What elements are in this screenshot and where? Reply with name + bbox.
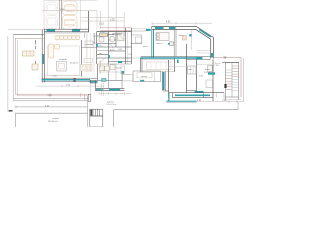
hall stacked boxes	[85, 41, 93, 48]
door frame block	[73, 78, 75, 82]
svg-text:3.25: 3.25	[110, 18, 115, 21]
svg-text:3.20 m2: 3.20 m2	[204, 72, 212, 74]
vertical dim line	[107, 0, 109, 36]
coffee table	[57, 62, 67, 72]
stair outline pink top	[213, 57, 241, 59]
counter strip left	[122, 75, 133, 81]
svg-text:lavad.: lavad.	[117, 68, 123, 70]
bath fixtures	[208, 66, 213, 72]
glazing bottom dark line	[42, 80, 90, 82]
kitchen island	[133, 71, 161, 82]
master top dimension line	[152, 22, 212, 25]
stair section marker	[224, 84, 226, 88]
window glazing teal west	[47, 29, 56, 31]
west window teal vertical	[163, 72, 165, 90]
marker dash left	[9, 110, 13, 112]
horizontal join x163-168	[163, 90, 169, 92]
vertical at west end of band	[172, 93, 174, 98]
entry door teal	[146, 29, 151, 31]
stair top landing line	[222, 62, 239, 64]
hall table set	[81, 59, 93, 72]
dining table	[142, 60, 175, 72]
faint hall verticals	[87, 33, 94, 72]
rug	[48, 46, 80, 76]
dining east wall	[174, 58, 176, 72]
svg-text:cesped: cesped	[52, 118, 60, 120]
svg-text:dorm. 1: dorm. 1	[157, 42, 165, 45]
stair treads left flight (gray)	[225, 70, 232, 76]
maroon long line A	[15, 93, 89, 95]
dim ticks under bump	[99, 92, 132, 95]
kitchen wall cabinets	[121, 66, 125, 74]
gray terrace corner	[12, 35, 14, 101]
garage bay divider wall	[59, 0, 61, 30]
horizontal dim line	[81, 17, 125, 19]
shower box	[136, 37, 142, 43]
bath west wall	[195, 59, 197, 91]
planter teal on terrace	[102, 79, 107, 82]
east wall teal block	[211, 53, 213, 58]
glazing dark edge	[141, 56, 211, 58]
svg-text:112.40 m2: 112.40 m2	[48, 121, 59, 123]
vertical dim text left	[35, 40, 36, 70]
laundry machines	[100, 65, 116, 71]
partition / chimney vertical	[80, 40, 82, 77]
gray line lower	[15, 106, 88, 108]
interior partition between bedrooms	[174, 29, 191, 56]
dressing north line	[169, 66, 187, 68]
glazing teal band	[42, 79, 74, 81]
gray double line	[13, 98, 88, 100]
glazing top dark line	[42, 77, 98, 79]
steps dark bar	[90, 110, 92, 116]
garage west edge	[43, 1, 45, 30]
stair divider	[231, 63, 233, 97]
teal vertical connector	[168, 93, 170, 102]
bedroom top wall inner	[152, 29, 211, 39]
bedroom top wall outer	[152, 27, 214, 38]
path edge vertical short	[84, 94, 86, 101]
living north inner line	[44, 33, 81, 35]
car 3 (tan, top-right bay)	[63, 1, 78, 15]
svg-text:2.10: 2.10	[99, 23, 104, 26]
horizontal dim line	[81, 20, 125, 22]
sill line left of glazing	[132, 57, 141, 59]
pool rectangle	[114, 110, 238, 127]
core west wall	[96, 32, 98, 64]
porch roof line 2	[100, 29, 131, 31]
west wall double	[41, 29, 43, 82]
svg-text:cocina: cocina	[141, 76, 148, 78]
bath east wall	[212, 59, 214, 101]
west wall teal window	[42, 54, 44, 64]
svg-text:lav.: lav.	[99, 53, 103, 55]
faint inner line	[86, 33, 88, 58]
walkway verticals from house	[100, 83, 102, 96]
bath south wall	[187, 90, 197, 92]
east wall inner	[210, 39, 212, 58]
wardrobe box dressing	[188, 66, 197, 74]
garage east wall	[88, 11, 90, 32]
terrace edge teal line	[166, 100, 196, 102]
hall mid wall line	[81, 47, 96, 49]
teal door south wall left	[196, 57, 202, 60]
dim line below living glazing	[36, 85, 104, 88]
top wall glazing teal 2	[169, 27, 176, 29]
desk items bedroom 3	[179, 34, 192, 40]
entry step lines	[132, 28, 147, 30]
teal windows in bump south wall	[96, 89, 103, 91]
west wall teal (double)	[151, 27, 153, 58]
stair bottom lines	[225, 97, 241, 100]
pool right edge up to dim line	[237, 102, 239, 110]
svg-text:35.40 m2: 35.40 m2	[70, 63, 79, 65]
garage top faint line	[44, 0, 97, 2]
closet lines above south wall (right)	[197, 50, 211, 52]
bathroom fixtures	[99, 33, 124, 42]
svg-text:vest.: vest.	[188, 68, 193, 71]
bath door teal bottom	[195, 91, 204, 93]
maroon terrace outline	[14, 38, 16, 94]
core east wall	[131, 28, 133, 64]
vertical dim line	[123, 12, 125, 36]
bath interior shelf line	[196, 64, 213, 66]
shower box bath	[206, 80, 213, 88]
wc fixture near partition	[168, 42, 174, 46]
cabinet row along living north wall	[55, 35, 80, 40]
door swing arcs	[100, 44, 113, 62]
wall top line	[44, 28, 89, 30]
south wall band right wing	[169, 92, 224, 94]
car 4 (tan, bottom-right bay)	[63, 16, 78, 30]
car 1 (grey, top-left bay)	[46, 2, 58, 14]
south wall of bump	[96, 87, 125, 89]
outdoor chair	[32, 64, 38, 70]
outer gray boundary	[243, 58, 245, 102]
svg-text:comedor: comedor	[59, 58, 67, 61]
step vertical at junction	[89, 80, 91, 83]
window glazing teal east	[72, 29, 80, 31]
path edge vertical long	[87, 96, 89, 127]
kitchen east wall	[168, 60, 170, 98]
vertical dim line	[115, 0, 117, 36]
wall bottom line	[44, 31, 89, 33]
outdoor sofa on west terrace	[23, 51, 35, 56]
stair outline pink right	[240, 58, 242, 98]
garage east bay edge	[80, 0, 82, 30]
chamfer glazing teal	[199, 29, 211, 37]
porch roof line (maroon)	[100, 27, 131, 29]
top wall glazing teal	[155, 27, 164, 29]
core top wall	[97, 31, 132, 33]
dim marks right of bath	[215, 62, 221, 67]
hall ticks left of core	[93, 36, 97, 43]
outer gray boundary vertical	[7, 36, 9, 112]
cabinet top-left core	[100, 33, 108, 36]
garage dimension line horizontal	[42, 10, 97, 12]
east wall outer	[212, 37, 214, 58]
svg-text:7.0 x 3.5 m: 7.0 x 3.5 m	[106, 104, 117, 106]
dimension tick verticals	[96, 11, 98, 30]
stair box	[225, 63, 238, 97]
terrace rectangle	[16, 113, 88, 127]
dining west wall	[139, 58, 141, 72]
core wall vertical	[107, 32, 109, 64]
tv lowboard	[59, 64, 65, 70]
sink teal	[140, 80, 144, 82]
offset segment east	[90, 81, 98, 83]
svg-text:4.52: 4.52	[166, 22, 171, 24]
core wall vertical	[124, 28, 126, 64]
shelf marks top-right core	[112, 33, 122, 34]
glazing teal	[175, 94, 210, 96]
horizontal partitions	[97, 35, 109, 37]
tan shelf strip	[100, 61, 101, 74]
core wall vertical	[115, 32, 117, 47]
maroon long line B	[17, 95, 88, 97]
sofa L-shape	[49, 44, 60, 58]
svg-text:dorm.: dorm.	[179, 34, 185, 37]
glazing teal long line	[141, 57, 203, 59]
vertical dim line near entrance	[100, 11, 102, 29]
planter box	[88, 95, 91, 102]
dressing west wall	[186, 44, 188, 93]
core teal door/window blocks	[96, 33, 122, 63]
extra partition line	[97, 50, 109, 52]
closet line bedroom 3	[191, 29, 193, 50]
car 2 (grey, bottom-left bay)	[46, 16, 58, 29]
stair treads right flight (maroon)	[232, 66, 239, 77]
teal door east of dining	[177, 60, 179, 64]
bed against west wall of bedroom 2	[156, 33, 169, 41]
tick marks	[49, 93, 51, 97]
